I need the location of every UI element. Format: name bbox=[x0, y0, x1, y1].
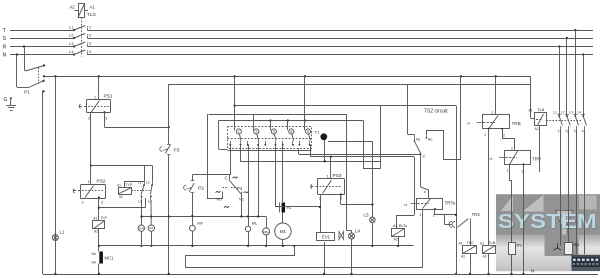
svg-text:TRV: TRV bbox=[532, 157, 542, 162]
svg-text:NO: NO bbox=[217, 197, 223, 201]
svg-text:c: c bbox=[511, 146, 513, 151]
svg-text:P1: P1 bbox=[24, 90, 30, 96]
svg-text:DD4: DD4 bbox=[139, 227, 145, 231]
svg-text:TRTs: TRTs bbox=[445, 201, 456, 206]
svg-text:L1: L1 bbox=[69, 25, 74, 30]
svg-text:c: c bbox=[424, 189, 426, 194]
svg-text:1: 1 bbox=[419, 213, 421, 217]
svg-text:3: 3 bbox=[105, 117, 107, 121]
svg-text:RV: RV bbox=[517, 243, 523, 248]
svg-text:MF: MF bbox=[197, 221, 203, 226]
svg-text:M1: M1 bbox=[280, 229, 287, 234]
svg-text:c: c bbox=[492, 110, 494, 115]
svg-text:N: N bbox=[531, 269, 535, 275]
svg-text:PS1: PS1 bbox=[104, 94, 113, 100]
svg-text:SYSTEM: SYSTEM bbox=[498, 211, 597, 233]
svg-text:TRB: TRB bbox=[512, 121, 521, 126]
svg-text:T2: T2 bbox=[146, 181, 150, 185]
svg-text:A2: A2 bbox=[119, 195, 123, 199]
svg-text:3: 3 bbox=[101, 201, 103, 205]
svg-text:A1: A1 bbox=[480, 241, 484, 245]
svg-text:L2: L2 bbox=[561, 111, 565, 115]
svg-text:A1: A1 bbox=[93, 217, 97, 221]
svg-text:C: C bbox=[423, 154, 426, 159]
svg-text:A2: A2 bbox=[394, 238, 398, 242]
svg-text:A2: A2 bbox=[483, 255, 487, 259]
svg-text:MC1: MC1 bbox=[105, 256, 115, 261]
svg-text:A2: A2 bbox=[94, 230, 98, 234]
svg-text:5: 5 bbox=[307, 130, 309, 134]
svg-text:PS3: PS3 bbox=[333, 173, 342, 179]
svg-text:G: G bbox=[4, 97, 8, 103]
svg-text:A1: A1 bbox=[90, 5, 96, 10]
svg-text:A1: A1 bbox=[459, 241, 463, 245]
svg-text:TRS: TRS bbox=[472, 212, 481, 217]
svg-text:TLC: TLC bbox=[467, 240, 475, 245]
svg-text:Nc: Nc bbox=[416, 138, 421, 142]
svg-text:T3: T3 bbox=[87, 41, 92, 46]
svg-text:S: S bbox=[3, 36, 7, 42]
svg-text:1: 1 bbox=[327, 175, 329, 179]
svg-text:6: 6 bbox=[290, 130, 292, 134]
svg-text:T1: T1 bbox=[138, 181, 142, 185]
svg-text:ML: ML bbox=[252, 221, 258, 226]
svg-text:C: C bbox=[225, 176, 228, 181]
svg-text:FL: FL bbox=[287, 205, 293, 210]
svg-text:L1: L1 bbox=[553, 111, 557, 115]
svg-text:A2: A2 bbox=[70, 5, 76, 10]
svg-text:L2: L2 bbox=[69, 33, 74, 38]
svg-text:L1: L1 bbox=[60, 230, 66, 235]
svg-text:DBe: DBe bbox=[263, 230, 269, 234]
svg-text:3: 3 bbox=[273, 130, 275, 134]
svg-text:N: N bbox=[3, 52, 7, 58]
svg-text:A1: A1 bbox=[529, 109, 533, 113]
svg-text:TLB: TLB bbox=[537, 107, 545, 112]
svg-text:L3: L3 bbox=[364, 213, 370, 218]
svg-text:1: 1 bbox=[507, 169, 509, 173]
svg-text:A1: A1 bbox=[117, 183, 121, 187]
svg-text:P2: P2 bbox=[198, 186, 204, 192]
svg-text:1: 1 bbox=[94, 96, 96, 100]
svg-text:1: 1 bbox=[238, 130, 240, 134]
svg-text:L4: L4 bbox=[69, 49, 74, 54]
svg-text:L3: L3 bbox=[569, 111, 573, 115]
svg-text:A2: A2 bbox=[535, 127, 539, 131]
svg-text:A1 RLTs: A1 RLTs bbox=[393, 224, 407, 228]
svg-text:TLB: TLB bbox=[488, 240, 496, 245]
svg-text:No: No bbox=[428, 138, 433, 142]
svg-text:EV1: EV1 bbox=[322, 235, 331, 240]
svg-text:TLG: TLG bbox=[87, 12, 96, 17]
svg-text:T4: T4 bbox=[87, 49, 92, 54]
svg-text:TLP: TLP bbox=[100, 216, 107, 220]
svg-text:1: 1 bbox=[88, 180, 90, 184]
svg-text:RB: RB bbox=[574, 242, 580, 247]
svg-text:L4: L4 bbox=[577, 111, 581, 115]
svg-text:1: 1 bbox=[484, 133, 486, 137]
svg-text:P3: P3 bbox=[174, 148, 180, 154]
svg-text:PR: PR bbox=[149, 227, 153, 231]
svg-text:T1: T1 bbox=[315, 130, 320, 135]
svg-text:2: 2 bbox=[255, 130, 257, 134]
svg-text:P4: P4 bbox=[237, 186, 243, 191]
svg-text:A2: A2 bbox=[461, 255, 465, 259]
svg-text:TLP: TLP bbox=[126, 183, 133, 187]
svg-text:T1: T1 bbox=[87, 25, 92, 30]
svg-text:2: 2 bbox=[503, 134, 505, 138]
svg-text:2: 2 bbox=[82, 201, 84, 205]
svg-text:PS2: PS2 bbox=[97, 179, 106, 185]
svg-text:R: R bbox=[3, 44, 7, 50]
svg-text:L3: L3 bbox=[69, 41, 74, 46]
svg-text:2: 2 bbox=[88, 117, 90, 121]
svg-text:T2: T2 bbox=[87, 33, 92, 38]
svg-text:TS2 circuit: TS2 circuit bbox=[424, 109, 448, 115]
svg-text:L4: L4 bbox=[355, 229, 361, 234]
